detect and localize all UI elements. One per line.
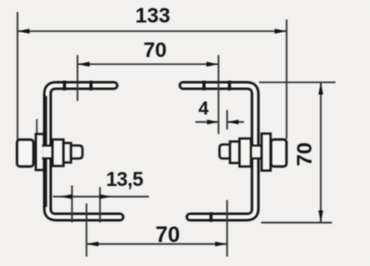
slot mark top-left lip B <box>89 81 92 91</box>
right bolt: shaft through wall <box>252 146 262 157</box>
svg-text:13,5: 13,5 <box>106 169 143 191</box>
left bolt: washer <box>36 134 44 170</box>
left bolt: nut <box>17 140 34 167</box>
slot mark top-right lip A <box>202 81 205 91</box>
13,5 line at x100 <box>99 187 101 223</box>
extension line 133 left <box>17 12 19 140</box>
13,5 line at x72 <box>71 186 73 223</box>
dimension line 70 bottom <box>87 243 228 245</box>
slot mark bottom-right lip <box>209 212 212 222</box>
extension line 70-top right <box>218 55 220 134</box>
right bolt: washer <box>262 134 271 171</box>
svg-text:70: 70 <box>156 222 180 247</box>
bottom-70 extension line right <box>226 200 228 257</box>
extension line 133 right <box>286 20 288 140</box>
right-70 extension line bottom <box>261 222 332 224</box>
rail right bracket inner white core <box>183 86 255 218</box>
dimension line 70 right vertical <box>320 82 322 222</box>
rail left bracket inner white core <box>48 86 121 218</box>
right bolt: inner flange <box>240 139 252 167</box>
right bolt: step <box>230 142 240 164</box>
dimension 4: short line <box>226 110 228 130</box>
left bolt: inner flange <box>53 140 64 167</box>
dimension line 133 <box>18 30 287 32</box>
rail right bracket outer <box>183 86 255 218</box>
right bolt: tip <box>220 145 231 159</box>
left bolt: step <box>64 143 72 163</box>
dimension 4: right segment with arrow <box>227 121 244 123</box>
svg-text:133: 133 <box>135 4 170 27</box>
dimension line 13,5 <box>53 196 149 198</box>
svg-text:4: 4 <box>198 98 209 119</box>
dimension 4: left segment with arrow <box>195 121 218 123</box>
scan artifact line above left washer <box>36 119 38 135</box>
svg-text:70: 70 <box>143 39 166 62</box>
right-70 extension line top <box>259 81 336 83</box>
extension line 70-top left <box>77 55 79 101</box>
left wall ink thickening <box>45 96 47 207</box>
slot mark top-left lip A <box>63 81 66 91</box>
slot mark top-right lip B <box>228 81 231 91</box>
bottom-70 extension line left <box>86 204 88 257</box>
rail left bracket outer (thick black C-profile) <box>48 86 121 218</box>
left bolt: tip <box>71 146 83 159</box>
dimension line 70-top <box>78 63 219 65</box>
right bolt: nut <box>271 140 287 167</box>
svg-text:70: 70 <box>293 142 317 166</box>
left bolt: shaft through wall <box>43 146 54 157</box>
